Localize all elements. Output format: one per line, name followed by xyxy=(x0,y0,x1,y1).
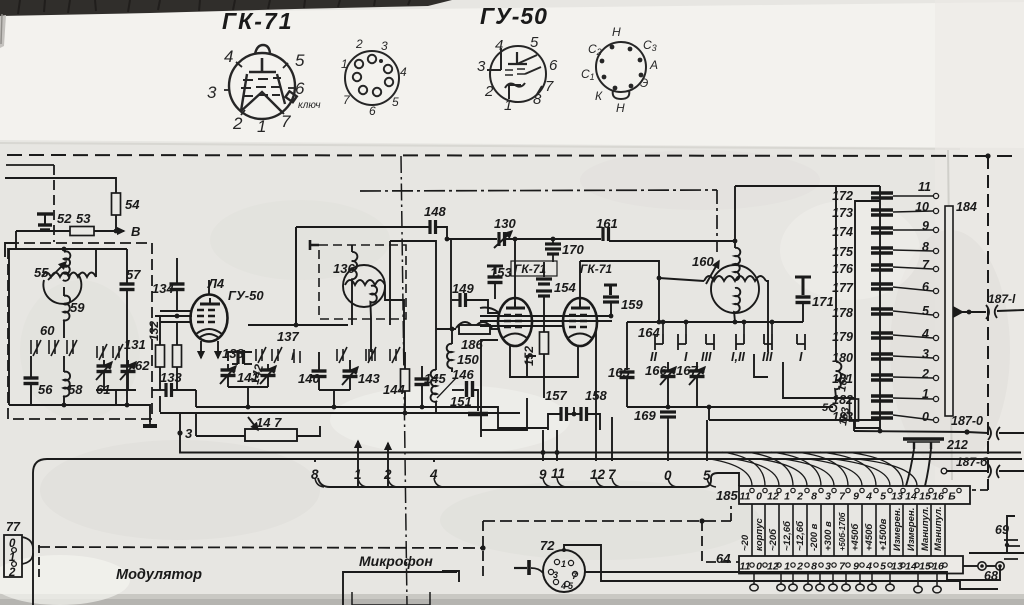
svg-text:173: 173 xyxy=(832,206,853,220)
node 157 158 mid xyxy=(572,412,577,417)
dash-dot centre fold vertical xyxy=(401,156,407,605)
wire curve into tube1 xyxy=(480,308,498,313)
feeder curve wires into strip 185 xyxy=(710,452,917,486)
inductor 136 horizontal winding xyxy=(345,280,385,285)
tube V5 grid dashes xyxy=(504,315,522,327)
resistor 54 xyxy=(112,193,121,215)
hook under 8 xyxy=(315,478,324,487)
node 3 xyxy=(177,430,182,435)
capacitor bank label box xyxy=(855,201,880,428)
svg-text:1: 1 xyxy=(561,559,566,569)
net bottom bus a xyxy=(627,406,833,408)
svg-text:Н: Н xyxy=(612,25,621,39)
svg-text:180: 180 xyxy=(832,351,853,365)
selector bar 184 xyxy=(945,206,953,416)
svg-text:К: К xyxy=(595,89,603,103)
svg-text:А: А xyxy=(649,58,658,72)
dashed riser left end xyxy=(38,545,40,578)
dashed stub into strip185 xyxy=(730,506,732,521)
resistor 163 xyxy=(853,398,855,399)
capacitor 171 xyxy=(795,277,811,295)
node dashed junction right xyxy=(699,518,704,523)
grid bias bus B xyxy=(160,412,520,414)
box around 152 xyxy=(527,356,536,377)
svg-text:159: 159 xyxy=(621,297,643,312)
svg-text:2: 2 xyxy=(232,114,243,133)
wire 136 to grid row xyxy=(351,279,353,325)
capacitor 149 xyxy=(452,299,459,301)
svg-text:172: 172 xyxy=(832,189,853,203)
wire tail down xyxy=(734,321,736,323)
node bottom xyxy=(62,403,67,408)
wire anode row 148 xyxy=(296,226,430,228)
inductor 55 secondary horizontal xyxy=(42,273,96,278)
svg-text:10: 10 xyxy=(915,200,929,214)
wire tube V5 plate riser xyxy=(514,239,516,302)
dashed right border vertical xyxy=(987,156,989,490)
wire tube V6 plate riser xyxy=(579,261,581,302)
svg-text:154: 154 xyxy=(554,280,576,295)
connector 212 prongs xyxy=(914,442,931,449)
wire 69 drop xyxy=(1007,516,1015,553)
terminal 68 a xyxy=(978,562,986,570)
wire 72 right long xyxy=(585,566,1000,580)
tube GU-50 pin numbers xyxy=(477,34,558,114)
inductor 146 xyxy=(431,370,438,402)
tube L4 anode bar xyxy=(200,303,220,306)
svg-text:Манипул.: Манипул. xyxy=(933,507,944,552)
right paper sheen xyxy=(935,0,1024,605)
capacitor 154 feedthrough xyxy=(543,262,545,277)
wire arrow to B xyxy=(94,230,124,232)
node net d xyxy=(770,320,775,325)
svg-text:77: 77 xyxy=(6,520,21,534)
svg-text:5: 5 xyxy=(880,491,886,503)
svg-text:176: 176 xyxy=(832,262,854,276)
connector strip 185 xyxy=(739,486,970,504)
switch contact I b xyxy=(797,334,805,350)
socket 8pin labels xyxy=(581,25,658,115)
svg-text:1: 1 xyxy=(504,97,512,114)
wire box top frame xyxy=(390,241,436,352)
capacitor 165 xyxy=(620,372,635,378)
main bus upper xyxy=(180,452,1021,454)
tube V5 GK-71 envelope xyxy=(498,298,532,346)
node 72 top xyxy=(562,548,566,552)
node plate riser xyxy=(513,237,518,242)
svg-text:72: 72 xyxy=(540,538,555,553)
capacitor 148 xyxy=(430,220,436,234)
node bus b xyxy=(707,405,712,410)
svg-text:Манипул.: Манипул. xyxy=(920,507,931,552)
crease line right xyxy=(948,150,952,480)
capacitor 134 xyxy=(176,258,178,283)
capacitor 57 xyxy=(126,249,128,283)
wire drop 12 xyxy=(595,430,597,461)
svg-text:143: 143 xyxy=(358,371,380,386)
svg-text:Н: Н xyxy=(616,101,625,115)
svg-text:Микрофон: Микрофон xyxy=(359,553,433,569)
wire plate supply vertical xyxy=(734,186,736,248)
connector 77 arcs xyxy=(22,537,33,549)
svg-text:1: 1 xyxy=(341,57,348,71)
terminal 187-b xyxy=(941,468,947,474)
wire 69 bus xyxy=(969,552,1024,554)
left paper edge shading xyxy=(0,15,6,48)
tube GU-50 internal leads xyxy=(487,48,542,99)
switch contact I xyxy=(294,349,300,363)
wire 72 top to right xyxy=(564,545,998,589)
svg-text:7: 7 xyxy=(545,78,554,95)
capacitor 183 xyxy=(871,413,893,418)
capacitor 153 xyxy=(487,266,503,274)
connector strip 64 xyxy=(739,556,963,574)
svg-text:187-l: 187-l xyxy=(988,292,1016,306)
connector 72 pin numbers xyxy=(553,559,578,591)
bottom scan shadow xyxy=(0,594,1024,605)
svg-text:5: 5 xyxy=(922,304,930,318)
capacitor 145 xyxy=(421,366,423,378)
wire 162 top to supply xyxy=(835,186,837,330)
svg-text:52: 52 xyxy=(57,211,72,226)
dashed drop to strip64 xyxy=(702,521,739,562)
wire left drop from B bus xyxy=(15,231,17,249)
svg-text:III: III xyxy=(762,350,773,364)
transformer 160 core circle xyxy=(711,265,759,313)
connector 72 plug xyxy=(514,567,527,569)
svg-text:-200 в: -200 в xyxy=(809,523,820,551)
wire 68 link xyxy=(986,565,996,567)
wire drop 0 xyxy=(667,420,669,461)
svg-text:ГК-71: ГК-71 xyxy=(222,8,294,34)
svg-text:184: 184 xyxy=(956,200,977,214)
wire switch outs down xyxy=(754,354,768,377)
node net b xyxy=(684,320,689,325)
resistor 132 xyxy=(159,316,161,345)
tube V6 GK-71 envelope xyxy=(563,298,597,346)
connector 72 pins xyxy=(548,559,577,586)
svg-text:9: 9 xyxy=(853,491,859,503)
wire 136 right leg xyxy=(385,285,404,352)
svg-text:174: 174 xyxy=(832,225,853,239)
svg-text:4: 4 xyxy=(921,327,929,341)
filament wires through tubes xyxy=(480,315,612,317)
arrow up 1 xyxy=(357,441,359,487)
svg-text:57: 57 xyxy=(126,267,141,282)
tube L4 envelope xyxy=(191,295,228,342)
comb contact marks xyxy=(1004,540,1020,559)
resistor 144 xyxy=(404,352,406,369)
wire tube top to grid cap xyxy=(208,280,210,294)
svg-text:+300 в: +300 в xyxy=(823,521,834,551)
wire box frame mid xyxy=(389,241,391,325)
transformer 160 tail winding xyxy=(734,288,740,322)
svg-text:1: 1 xyxy=(784,561,790,573)
capacitor 169 xyxy=(666,405,671,410)
output terminals below strip 64 xyxy=(750,573,941,593)
svg-text:8: 8 xyxy=(922,240,929,254)
wire 186 link xyxy=(436,328,456,330)
svg-text:~12,6б: ~12,6б xyxy=(782,520,793,551)
node junction top right xyxy=(985,153,990,158)
dashed box oscillator block xyxy=(8,243,152,419)
hook under 4 xyxy=(434,478,443,487)
inductor 59 winding xyxy=(63,296,70,321)
tube GK-71 key notch xyxy=(285,91,296,102)
node bank bottom xyxy=(878,429,883,434)
svg-text:~20б: ~20б xyxy=(768,528,779,551)
connector 212 bar xyxy=(903,437,944,440)
svg-text:56: 56 xyxy=(38,382,53,397)
wire tank bottom xyxy=(9,404,148,406)
socket 7pin numbers xyxy=(341,37,407,118)
svg-text:1: 1 xyxy=(922,387,929,401)
node 162 bottom xyxy=(834,396,839,401)
svg-text:2: 2 xyxy=(796,491,803,503)
wire to right break xyxy=(967,432,988,433)
transformer 160 primary vertical winding xyxy=(734,248,741,280)
wire 152 bottom down xyxy=(543,377,545,398)
tube GK-71 pin ticks xyxy=(224,62,294,115)
wire secondary left arm xyxy=(659,278,704,281)
strip 64 cell numbers xyxy=(740,561,944,573)
capacitor 140 xyxy=(318,352,320,370)
wire drop 4 xyxy=(433,459,435,462)
tube GK-71 anode symbol xyxy=(249,58,276,72)
capacitor 133 horizontal xyxy=(152,389,166,391)
svg-text:53: 53 xyxy=(76,211,91,226)
svg-text:59: 59 xyxy=(70,300,85,315)
svg-text:+1500в: +1500в xyxy=(878,518,889,551)
network top bus xyxy=(627,321,803,323)
svg-text:167: 167 xyxy=(676,363,698,378)
transformer 160 secondary winding horizontal xyxy=(704,276,766,281)
svg-text:Измерен.: Измерен. xyxy=(892,508,903,551)
svg-text:157: 157 xyxy=(545,388,567,403)
wire strip64 to 68 xyxy=(963,565,978,567)
svg-text:133: 133 xyxy=(160,370,182,385)
wire bus b drop xyxy=(708,407,710,420)
switch contact III b xyxy=(764,334,772,350)
svg-text:177: 177 xyxy=(832,281,854,295)
wire 163 top link xyxy=(836,397,854,399)
variable capacitor 62 xyxy=(127,360,129,366)
switch contacts under 136 xyxy=(369,349,375,361)
wire node3 vertical xyxy=(179,413,181,454)
svg-text:140: 140 xyxy=(298,371,320,386)
tube GK-71 cathode vee xyxy=(240,92,283,113)
capacitor 176 xyxy=(871,265,893,270)
voltage labels rotated xyxy=(740,507,944,552)
capacitor bank feed wire xyxy=(879,186,881,431)
switch contact II xyxy=(655,334,663,350)
inductor 55 vertical winding xyxy=(63,251,71,280)
resistor 133 companion xyxy=(176,322,178,345)
svg-text:11: 11 xyxy=(551,466,565,481)
tube GK-71 grid side lines xyxy=(241,74,285,111)
svg-text:корпус: корпус xyxy=(754,517,765,551)
svg-text:132: 132 xyxy=(147,321,161,341)
dashed corner 187-b xyxy=(972,489,988,491)
capacitor 56 xyxy=(30,356,32,378)
bank bottom bus xyxy=(854,431,967,432)
svg-text:Б: Б xyxy=(948,491,956,503)
node filament xyxy=(175,314,180,319)
tube GK-71 pin numbers xyxy=(207,47,305,136)
svg-text:ГУ-50: ГУ-50 xyxy=(228,288,264,303)
svg-text:134: 134 xyxy=(152,281,174,296)
tube V5 anode bar xyxy=(506,307,525,310)
wire 147 left drop xyxy=(195,413,197,436)
svg-text:187-б: 187-б xyxy=(956,455,988,469)
neutralizing stub cap xyxy=(310,240,319,250)
arrow into 147 xyxy=(248,417,258,430)
svg-text:+50б-170б: +50б-170б xyxy=(838,512,847,551)
dashed left inner vertical xyxy=(53,165,55,242)
grid bias bus A xyxy=(196,407,548,428)
variable capacitor 141 xyxy=(227,364,229,369)
svg-text:3: 3 xyxy=(553,570,558,580)
node plate run xyxy=(657,276,662,281)
svg-text:Измерен.: Измерен. xyxy=(906,508,917,551)
faint page-edge line under top band xyxy=(0,143,960,149)
wire secondary right arm xyxy=(766,281,768,352)
wire tube V5 down xyxy=(510,346,544,377)
switch contacts 61 62 xyxy=(97,344,123,360)
svg-text:2: 2 xyxy=(383,467,392,482)
label GK-71 first boxed xyxy=(511,261,557,276)
hook under 1 xyxy=(358,478,367,487)
switch contact III right xyxy=(390,347,400,363)
arrow 160 tuning xyxy=(706,261,719,284)
svg-text:182: 182 xyxy=(832,393,853,407)
svg-text:165: 165 xyxy=(608,365,630,380)
socket 8pin holes xyxy=(600,45,644,91)
svg-text:153: 153 xyxy=(490,265,512,280)
svg-text:7: 7 xyxy=(281,112,291,131)
svg-text:150: 150 xyxy=(457,352,479,367)
dash-dot horizontal net line xyxy=(360,190,717,191)
dashed horizontal to 64 strip xyxy=(483,520,731,522)
switch contact III mid xyxy=(337,347,347,363)
svg-text:0: 0 xyxy=(922,410,929,424)
tube L4 cathode arcs xyxy=(196,329,222,334)
svg-text:178: 178 xyxy=(832,306,853,320)
hook under 12 xyxy=(596,478,605,487)
node dashed junction xyxy=(480,545,485,550)
wire to ground xyxy=(148,405,150,422)
svg-text:54: 54 xyxy=(125,197,140,212)
wire top link to cap bank xyxy=(735,185,880,187)
node bus 9 xyxy=(541,450,546,455)
svg-text:2: 2 xyxy=(484,83,494,100)
connector 77 body xyxy=(4,535,22,577)
svg-text:9: 9 xyxy=(853,561,859,573)
wire B bus xyxy=(16,230,71,232)
wire 59 down xyxy=(63,320,65,338)
switch contact III xyxy=(706,334,714,350)
wire drop 9 xyxy=(542,430,544,461)
capacitor 180 xyxy=(871,354,893,359)
capacitor 179 xyxy=(871,333,893,338)
resistor 53 xyxy=(70,227,94,236)
svg-text:4: 4 xyxy=(865,561,872,573)
wire down to bus xyxy=(159,396,161,412)
tube GU-50 pinout envelope xyxy=(487,46,546,102)
capacitor 174 xyxy=(871,228,893,233)
capacitor 161 xyxy=(603,227,609,241)
capacitor 170 feedthrough xyxy=(551,237,556,242)
tube V6 cathode arc xyxy=(568,334,592,339)
svg-text:В: В xyxy=(131,224,140,239)
svg-text:+450б: +450б xyxy=(850,523,861,551)
svg-text:11: 11 xyxy=(740,561,751,573)
svg-text:ГК-71: ГК-71 xyxy=(514,262,546,276)
variable capacitor 167 xyxy=(696,362,698,370)
wire resistors to cap xyxy=(159,367,161,390)
svg-text:I: I xyxy=(799,350,803,364)
inductor 55 core circle xyxy=(43,274,81,304)
socket 7pin circle xyxy=(345,51,399,105)
capacitor 178 xyxy=(871,309,893,314)
switch contact I-II xyxy=(736,334,744,350)
wire 136 top stub xyxy=(351,245,353,252)
svg-text:~20: ~20 xyxy=(740,534,751,551)
hook under 0 xyxy=(668,478,677,487)
svg-text:16: 16 xyxy=(932,491,944,503)
inter-strip link wires xyxy=(752,504,945,556)
svg-text:2: 2 xyxy=(8,567,16,579)
hook bus line xyxy=(318,473,739,487)
svg-text:6: 6 xyxy=(295,79,305,98)
wire 136 tail xyxy=(370,286,377,318)
hook under 2 xyxy=(388,478,397,487)
svg-text:3: 3 xyxy=(477,58,486,75)
socket 7pin index dot xyxy=(379,59,383,63)
svg-text:138: 138 xyxy=(222,346,244,361)
wiper wire out xyxy=(962,311,986,313)
svg-text:4: 4 xyxy=(400,65,407,79)
svg-text:16: 16 xyxy=(932,561,944,573)
wire row to 130 xyxy=(447,238,497,240)
svg-text:3: 3 xyxy=(381,39,388,53)
svg-text:2: 2 xyxy=(355,37,363,51)
bracket notch outside box xyxy=(5,243,15,257)
tube GU-50 anode xyxy=(508,52,527,64)
net bottom bus b xyxy=(709,419,880,421)
capacitor 182 xyxy=(871,396,893,401)
node R54 bottom xyxy=(114,229,119,234)
svg-text:171: 171 xyxy=(812,294,834,309)
svg-text:4: 4 xyxy=(224,47,233,66)
dashed top border xyxy=(7,155,1018,156)
capacitor 175 xyxy=(871,248,893,253)
tube V5 cathode arc xyxy=(503,334,527,339)
wire 170 row right xyxy=(553,238,601,240)
wire 371 down xyxy=(370,318,372,352)
capacitor 52 feedthrough xyxy=(37,214,53,230)
break symbol right 187-l xyxy=(986,305,989,319)
rotor numbers xyxy=(915,180,931,424)
svg-text:169: 169 xyxy=(634,408,656,423)
svg-text:8: 8 xyxy=(533,91,542,108)
socket 8pin circle xyxy=(596,42,646,99)
node grid row xyxy=(294,323,299,328)
svg-text:160: 160 xyxy=(692,254,714,269)
wire grid row xyxy=(248,324,348,326)
hook under 7 xyxy=(612,478,621,487)
svg-text:+450б: +450б xyxy=(864,523,875,551)
